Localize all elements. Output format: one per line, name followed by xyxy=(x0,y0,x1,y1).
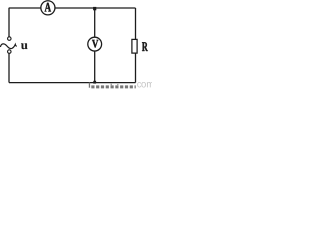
wire voltmeter branch xyxy=(94,8,96,83)
source label u xyxy=(21,43,28,49)
watermark dashed fragments xyxy=(91,85,136,88)
watermark c xyxy=(137,82,141,87)
wire bottom xyxy=(9,82,136,84)
wire right upper xyxy=(135,8,137,40)
wire left lower xyxy=(8,53,10,82)
wire top xyxy=(9,7,136,9)
resistor label R xyxy=(142,42,148,51)
voltmeter U2 circle xyxy=(88,37,102,51)
watermark tick 3 xyxy=(117,84,118,86)
ammeter label A xyxy=(45,3,51,12)
junction top of voltmeter branch xyxy=(93,7,96,10)
resistor R box xyxy=(132,39,137,53)
wire left upper xyxy=(8,8,10,37)
junction bottom of voltmeter branch xyxy=(93,81,96,84)
watermark tick 2 xyxy=(111,84,112,86)
voltmeter label V xyxy=(92,40,98,48)
watermark fragment tick xyxy=(89,83,90,88)
source terminal bottom xyxy=(8,50,12,54)
wire right lower xyxy=(135,53,137,83)
watermark om text xyxy=(141,82,153,87)
AC tilde of source xyxy=(0,44,16,49)
ammeter U1 circle xyxy=(41,1,55,15)
source terminal top xyxy=(8,37,12,41)
